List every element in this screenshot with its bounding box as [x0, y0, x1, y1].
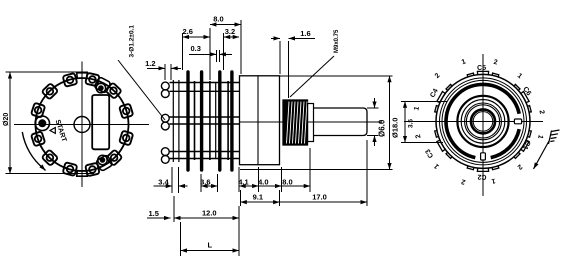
- svg-text:3.4: 3.4: [158, 178, 169, 187]
- svg-text:9.1: 9.1: [253, 193, 263, 202]
- svg-text:17.0: 17.0: [312, 193, 327, 202]
- svg-text:4.0: 4.0: [258, 178, 268, 187]
- svg-text:8.0: 8.0: [282, 178, 292, 187]
- svg-text:Ø6.0: Ø6.0: [378, 119, 387, 137]
- svg-text:12.0: 12.0: [202, 209, 217, 218]
- svg-text:1.2: 1.2: [145, 59, 155, 68]
- svg-text:4.1: 4.1: [238, 178, 248, 187]
- svg-text:1.6: 1.6: [300, 29, 310, 38]
- svg-text:3-Ø1.2±0.1: 3-Ø1.2±0.1: [129, 25, 136, 58]
- svg-text:C2: C2: [477, 173, 486, 180]
- svg-text:8.0: 8.0: [213, 15, 223, 24]
- svg-text:L: L: [208, 241, 213, 250]
- svg-text:2.6: 2.6: [183, 27, 193, 36]
- svg-text:0.3: 0.3: [191, 44, 201, 53]
- svg-text:Ø18.0: Ø18.0: [391, 118, 400, 138]
- svg-text:M9x0.75: M9x0.75: [334, 29, 340, 53]
- svg-text:3.6: 3.6: [200, 178, 210, 187]
- svg-text:3.2: 3.2: [225, 27, 235, 36]
- svg-text:3.5: 3.5: [408, 119, 415, 128]
- svg-text:1.5: 1.5: [149, 209, 159, 218]
- svg-text:Ø20: Ø20: [3, 113, 10, 126]
- svg-text:C5: C5: [477, 65, 486, 72]
